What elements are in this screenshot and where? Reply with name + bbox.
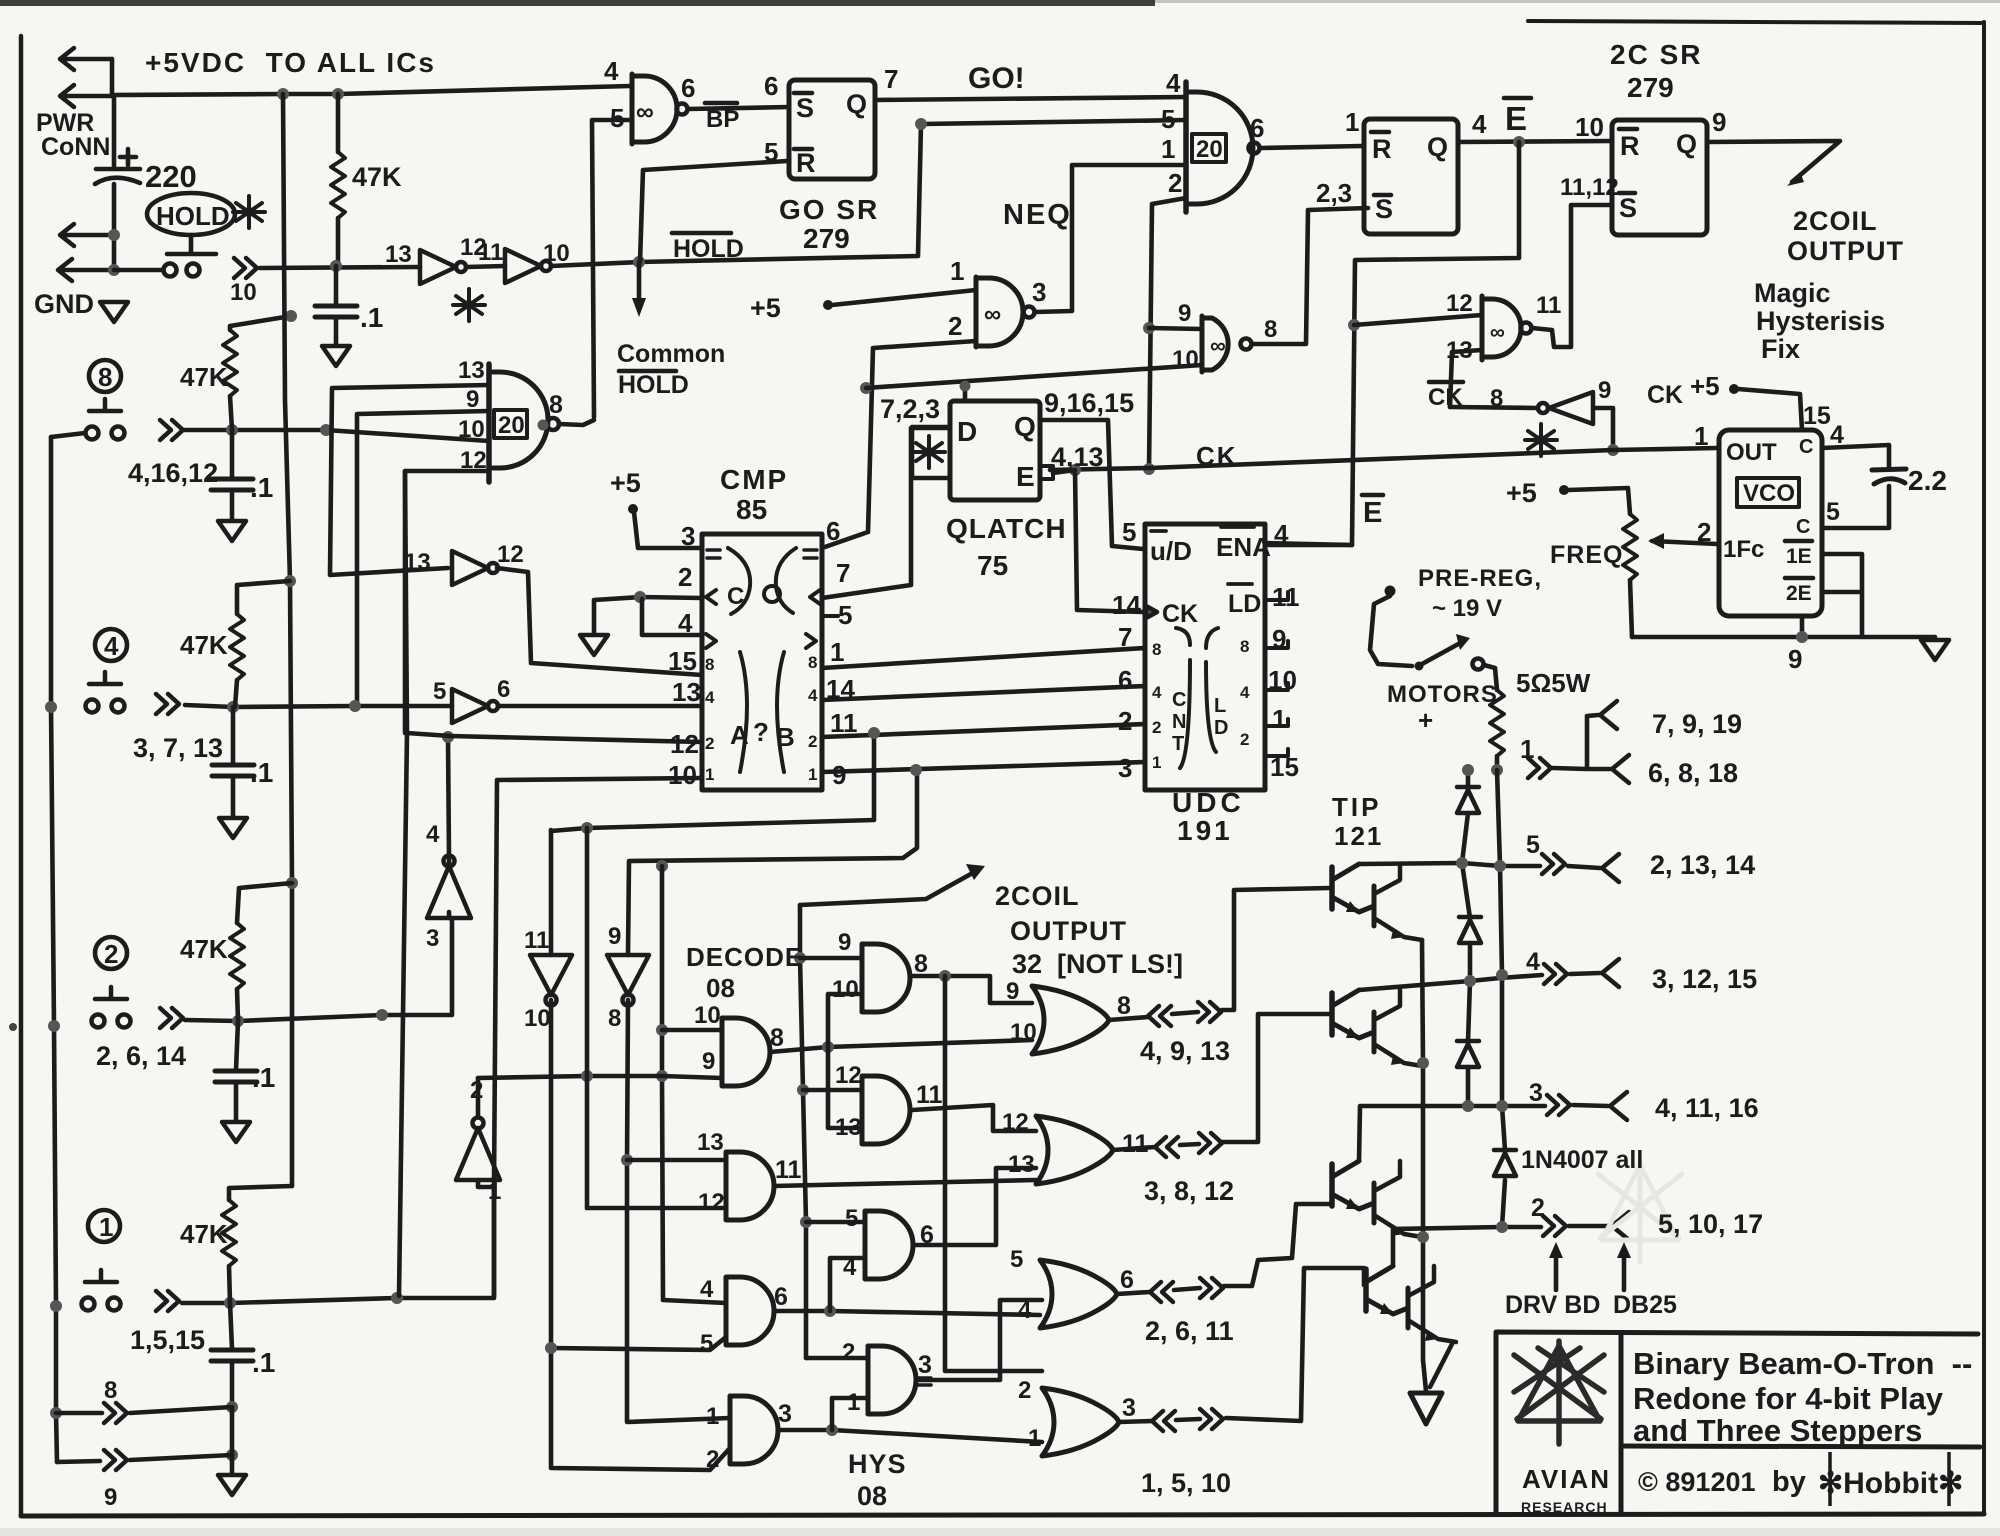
svg-text:9,16,15: 9,16,15 bbox=[1044, 388, 1134, 418]
svg-text:08: 08 bbox=[706, 973, 735, 1003]
titleblock divider vertical bbox=[1619, 1334, 1624, 1514]
svg-text:5: 5 bbox=[838, 600, 852, 630]
svg-text:2: 2 bbox=[842, 1339, 855, 1366]
wire u5 out to S ff1 bbox=[1252, 208, 1368, 344]
wire q8 emitter to gnd bbox=[1430, 1344, 1452, 1387]
wire u4 out bbox=[1260, 146, 1362, 148]
svg-text:3, 12, 15: 3, 12, 15 bbox=[1652, 964, 1757, 994]
svg-text:1: 1 bbox=[1152, 753, 1161, 772]
wire Ebar to ENA bbox=[1265, 142, 1519, 545]
svg-text:2COIL: 2COIL bbox=[995, 881, 1080, 911]
wire hold row bbox=[260, 267, 420, 268]
inverter U1b 11-10 bbox=[505, 249, 551, 283]
asterisk u7 bbox=[1525, 424, 1557, 456]
wire udc ena to ebar bbox=[1265, 543, 1352, 545]
svg-text:8: 8 bbox=[914, 950, 928, 978]
fork 6818 bbox=[1612, 755, 1629, 783]
wire decode top net A bbox=[551, 733, 874, 831]
node bus3 bbox=[868, 727, 880, 739]
svg-text:1: 1 bbox=[488, 1178, 501, 1205]
svg-text:DECODE: DECODE bbox=[686, 942, 803, 972]
wire x662 column bbox=[662, 866, 726, 1303]
diode D2 bbox=[1459, 917, 1481, 943]
svg-text:9: 9 bbox=[1272, 624, 1286, 654]
svg-text:8: 8 bbox=[1240, 637, 1249, 656]
svg-text:2, 13, 14: 2, 13, 14 bbox=[1650, 850, 1755, 880]
svg-text:3: 3 bbox=[1118, 753, 1132, 783]
svg-text:13: 13 bbox=[385, 241, 412, 268]
wire dg1 out bbox=[770, 1040, 1032, 1052]
svg-text:9: 9 bbox=[466, 386, 479, 413]
svg-text:2: 2 bbox=[1168, 168, 1182, 198]
svg-text:CK: CK bbox=[1428, 384, 1463, 411]
wire u6 pin13 bbox=[1450, 350, 1482, 407]
node emitter joins bbox=[1417, 1057, 1429, 1069]
svg-text:279: 279 bbox=[803, 223, 850, 254]
wire hold net to nand bbox=[551, 120, 1186, 266]
svg-text:15: 15 bbox=[1270, 752, 1299, 782]
svg-text:4: 4 bbox=[1152, 683, 1162, 702]
inverter U9a 13-12 bbox=[452, 551, 498, 585]
node holdnet bbox=[633, 256, 645, 268]
switch SW1 bbox=[82, 1270, 121, 1311]
overline CKbar bbox=[1429, 380, 1463, 385]
svg-text:HOLD: HOLD bbox=[673, 235, 744, 263]
svg-text:OUT: OUT bbox=[1726, 439, 1777, 466]
svg-text:4: 4 bbox=[700, 1276, 714, 1303]
svg-text:.1: .1 bbox=[360, 302, 383, 333]
node 2coil taps bbox=[794, 952, 806, 964]
svg-text:Common: Common bbox=[617, 340, 725, 368]
svg-text:R: R bbox=[1372, 134, 1392, 164]
node Ebar bbox=[1513, 136, 1525, 148]
svg-text:5: 5 bbox=[1161, 104, 1175, 134]
svg-text:1,5,15: 1,5,15 bbox=[130, 1325, 205, 1355]
wire q1 collector rail row5 bbox=[1359, 863, 1540, 866]
wire x945 column to or4 bbox=[945, 976, 1042, 1371]
wire row8 to nand2 pin10 bbox=[185, 430, 489, 441]
svg-text:BP: BP bbox=[706, 106, 739, 133]
wire dg1 pin10 bbox=[662, 1028, 722, 1033]
svg-text:T: T bbox=[1172, 733, 1184, 755]
or OR2 bbox=[1036, 1116, 1113, 1184]
titleblock divider horizontal bbox=[1621, 1446, 1980, 1447]
svg-text:GND: GND bbox=[34, 289, 94, 319]
svg-text:47K: 47K bbox=[180, 630, 228, 660]
overline R S ff2 bbox=[1619, 129, 1637, 193]
wire qlatch D stub bbox=[963, 386, 968, 401]
wire neq pin2 / cmp pin6 bbox=[822, 341, 976, 548]
hobbit daggers bbox=[1830, 1452, 1949, 1506]
ground vco bbox=[1921, 640, 1949, 660]
pwr conn arrows bbox=[60, 48, 112, 70]
svg-text:∞: ∞ bbox=[636, 98, 654, 126]
wire qlatch Q to UDC ud bbox=[1040, 420, 1143, 549]
transistor Q3Q4 darlington bbox=[1332, 990, 1422, 1066]
ground c4 bbox=[219, 818, 247, 838]
svg-text:© 891201: © 891201 bbox=[1638, 1467, 1756, 1497]
svg-text:7: 7 bbox=[884, 64, 898, 94]
svg-text:5: 5 bbox=[764, 137, 778, 167]
svg-text:7: 7 bbox=[1118, 622, 1132, 652]
svg-text:9: 9 bbox=[702, 1048, 715, 1075]
wire u1a-u1b bbox=[466, 266, 505, 267]
svg-text:HOLD: HOLD bbox=[156, 201, 230, 231]
svg-text:C: C bbox=[1796, 516, 1810, 538]
svg-text:8: 8 bbox=[1117, 992, 1131, 1020]
svg-text:5: 5 bbox=[1010, 1246, 1023, 1273]
svg-text:1: 1 bbox=[950, 256, 964, 286]
wire +5 neq stub bbox=[823, 300, 833, 310]
svg-text:✻Hobbit✻: ✻Hobbit✻ bbox=[1818, 1467, 1963, 1500]
svg-text:9: 9 bbox=[838, 929, 851, 956]
svg-text:2: 2 bbox=[705, 734, 714, 753]
svg-text:HOLD: HOLD bbox=[618, 371, 689, 399]
wire cmp-udc bus4 bbox=[822, 762, 1145, 772]
node ck-e bbox=[1069, 464, 1081, 476]
wire row1 bbox=[182, 1180, 494, 1303]
node u11b taps bbox=[621, 1154, 633, 1166]
svg-text:Magic: Magic bbox=[1754, 278, 1831, 308]
svg-text:11: 11 bbox=[478, 239, 503, 266]
capacitor C4 .1 row4 bbox=[231, 707, 236, 764]
svg-text:13: 13 bbox=[404, 549, 431, 576]
wire cmp-udc bus1 bbox=[822, 648, 1145, 668]
svg-text:S: S bbox=[1375, 194, 1393, 224]
svg-text:2: 2 bbox=[706, 1446, 719, 1473]
svg-text:2: 2 bbox=[1118, 706, 1132, 736]
svg-text:10: 10 bbox=[1575, 112, 1604, 142]
svg-text:.1: .1 bbox=[250, 757, 273, 788]
svg-text:10: 10 bbox=[1010, 1019, 1037, 1046]
node diode col A bbox=[1456, 857, 1468, 869]
wire main bus v290 bbox=[283, 94, 292, 1186]
svg-text:+: + bbox=[1418, 705, 1433, 735]
svg-text:13: 13 bbox=[1446, 337, 1473, 364]
svg-text:1: 1 bbox=[1694, 421, 1708, 451]
svg-text:4: 4 bbox=[1166, 68, 1181, 98]
switch SW2 bbox=[92, 987, 131, 1028]
connector row1 out bbox=[1528, 758, 1551, 778]
node diode col B bbox=[1494, 860, 1506, 872]
capacitor C2 .1 bbox=[334, 266, 339, 305]
svg-text:A: A bbox=[730, 720, 749, 750]
counter UDC191 box bbox=[1145, 524, 1265, 790]
node x662 bbox=[656, 1024, 668, 1036]
or OR4 bbox=[1042, 1388, 1119, 1456]
svg-text:3: 3 bbox=[681, 521, 695, 551]
wire u11a out column bbox=[551, 1000, 730, 1470]
wire dg4 out bbox=[778, 1430, 1042, 1442]
wire q5 collector rail row3 bbox=[1359, 1106, 1545, 1161]
node dg4 out bbox=[826, 1424, 838, 1436]
svg-text:?: ? bbox=[753, 717, 769, 747]
vco label box bbox=[1737, 478, 1799, 507]
svg-text:6: 6 bbox=[497, 676, 510, 703]
or OR1 output32 bbox=[1032, 986, 1109, 1054]
wire vco bottom common bbox=[1632, 554, 1935, 637]
connector chevron hold bbox=[234, 258, 257, 278]
svg-text:4,16,12: 4,16,12 bbox=[128, 458, 218, 488]
svg-text:HYS: HYS bbox=[848, 1449, 907, 1479]
wire hys3 pin5 bbox=[806, 1220, 865, 1225]
svg-text:4: 4 bbox=[705, 688, 715, 707]
svg-text:UDC: UDC bbox=[1172, 787, 1245, 818]
svg-text:5: 5 bbox=[1122, 517, 1136, 547]
capacitor C7 2.2 bbox=[1872, 469, 1906, 484]
svg-text:1: 1 bbox=[808, 765, 817, 784]
svg-text:R: R bbox=[796, 148, 816, 178]
resistor R5 47K row1 bbox=[229, 1186, 292, 1200]
wire u2 pin5 to nand2 out bbox=[592, 120, 632, 417]
wire dg2 pin12 bbox=[587, 1206, 726, 1211]
and DG1 decode bbox=[722, 1018, 770, 1086]
svg-text:1: 1 bbox=[830, 637, 844, 667]
overline E small bbox=[1362, 493, 1383, 498]
svg-text:1: 1 bbox=[1520, 734, 1534, 764]
wire vco pin4 cap bbox=[1822, 445, 1889, 467]
transistor Q5Q6 darlington bbox=[1332, 1161, 1422, 1237]
svg-text:9: 9 bbox=[1788, 644, 1802, 674]
svg-text:B: B bbox=[776, 722, 795, 752]
svg-text:13: 13 bbox=[835, 1114, 862, 1141]
comparator CMP85 box bbox=[702, 534, 822, 790]
wire diode column A bbox=[1462, 770, 1470, 1106]
svg-text:4: 4 bbox=[843, 1254, 857, 1281]
svg-text:1: 1 bbox=[705, 765, 714, 784]
svg-text:9: 9 bbox=[1006, 978, 1019, 1005]
svg-text:5, 10, 17: 5, 10, 17 bbox=[1658, 1209, 1763, 1239]
svg-text:D: D bbox=[1214, 717, 1228, 739]
svg-text:2: 2 bbox=[1697, 517, 1711, 547]
connector row8 out bbox=[56, 1411, 102, 1416]
svg-text:8: 8 bbox=[104, 1377, 117, 1404]
svg-text:5: 5 bbox=[433, 678, 446, 705]
border right bbox=[1982, 22, 1986, 1514]
wire dg2 out bbox=[774, 1180, 1036, 1186]
node cmp2 bbox=[634, 591, 646, 603]
flipflop FF2 bbox=[1612, 120, 1707, 235]
udc ck pin arrow bbox=[1146, 606, 1157, 618]
svg-text:1E: 1E bbox=[1786, 545, 1812, 568]
svg-text:4: 4 bbox=[1472, 109, 1487, 139]
svg-text:8: 8 bbox=[1264, 316, 1277, 343]
wire hys4 pin2 bbox=[806, 1356, 868, 1361]
capacitor C1 220 bbox=[95, 96, 140, 270]
logo avian star bbox=[1514, 1341, 1604, 1444]
wire qlatch E to ck bbox=[1053, 470, 1075, 473]
wire CK line bbox=[1050, 448, 1717, 470]
udc overlines bbox=[1151, 527, 1254, 584]
svg-text:+5: +5 bbox=[1690, 371, 1720, 401]
overline S R in gosr bbox=[794, 93, 812, 149]
udc inner brackets bbox=[1176, 628, 1218, 768]
vco +5 stub bbox=[1729, 384, 1739, 394]
svg-text:4: 4 bbox=[1830, 421, 1844, 449]
wire or3 out row bbox=[1117, 1204, 1330, 1294]
svg-text:47K: 47K bbox=[180, 934, 228, 964]
ground c6 bbox=[218, 1475, 246, 1495]
and DG2 decode bbox=[726, 1152, 774, 1220]
svg-text:1, 5, 10: 1, 5, 10 bbox=[1141, 1468, 1231, 1498]
node dg3 out bbox=[824, 1305, 836, 1317]
resistor R4 47K row2 bbox=[237, 883, 292, 923]
svg-text:1: 1 bbox=[1028, 1425, 1041, 1452]
svg-text:.1: .1 bbox=[252, 1347, 275, 1378]
svg-text:47K: 47K bbox=[352, 162, 402, 192]
wire u5 pin9 stub bbox=[1149, 328, 1202, 329]
wire u8 pin9 nest bbox=[357, 411, 489, 705]
svg-text:85: 85 bbox=[736, 494, 767, 525]
wire inv column 551 bbox=[549, 830, 554, 955]
inverter U1a 13-12 bbox=[420, 250, 466, 284]
svg-text:Q: Q bbox=[1427, 132, 1448, 162]
svg-text:32 [NOT LS!]: 32 [NOT LS!] bbox=[1012, 949, 1183, 979]
resistor R2 47K row8 bbox=[230, 316, 291, 330]
wire udc ck net bbox=[1075, 470, 1143, 612]
svg-text:1: 1 bbox=[1161, 134, 1175, 164]
svg-text:2: 2 bbox=[1152, 718, 1161, 737]
svg-text:1: 1 bbox=[1272, 704, 1286, 734]
svg-text:4, 11, 16: 4, 11, 16 bbox=[1655, 1093, 1759, 1123]
svg-text:PRE-REG,: PRE-REG, bbox=[1418, 565, 1542, 592]
svg-text:4: 4 bbox=[1274, 519, 1289, 549]
nand U6 bbox=[1482, 296, 1521, 360]
wire dg2 pin13 bbox=[627, 1158, 726, 1163]
svg-text:6: 6 bbox=[1118, 665, 1132, 695]
scan smudge top edge bbox=[0, 0, 1155, 6]
wire hys2 pin12 bbox=[803, 1088, 862, 1093]
wire ff1 Q to ff2 bbox=[1458, 141, 1612, 142]
node bus taps bbox=[45, 701, 57, 713]
fork 7919 bbox=[1600, 701, 1617, 729]
svg-text:75: 75 bbox=[977, 550, 1008, 581]
node rail junctions bbox=[277, 88, 289, 100]
wire or2 out row bbox=[1113, 1014, 1330, 1150]
node row4 bbox=[227, 701, 239, 713]
wire cmp pin2 gnd bbox=[594, 597, 702, 633]
svg-text:191: 191 bbox=[1177, 815, 1233, 846]
svg-text:S: S bbox=[796, 93, 814, 123]
overline BP bbox=[705, 101, 737, 106]
transistor Q7Q8 darlington bbox=[1366, 1266, 1456, 1342]
svg-text:DB25: DB25 bbox=[1613, 1291, 1677, 1319]
svg-text:GO SR: GO SR bbox=[779, 194, 879, 225]
svg-text:6: 6 bbox=[774, 1283, 788, 1311]
node r1 bottom bbox=[330, 260, 342, 272]
wire hys4 pin1 tap bbox=[832, 1398, 868, 1430]
ground c3 bbox=[218, 521, 246, 541]
svg-text:QLATCH: QLATCH bbox=[946, 513, 1067, 544]
svg-text:4: 4 bbox=[1240, 683, 1250, 702]
wire or4 out row bbox=[1119, 1268, 1364, 1422]
svg-text:C: C bbox=[727, 583, 744, 610]
svg-text:3: 3 bbox=[1529, 1079, 1543, 1107]
nand U4 20 bbox=[1183, 82, 1189, 212]
svg-text:11: 11 bbox=[830, 708, 858, 738]
svg-text:∞: ∞ bbox=[984, 301, 1001, 328]
svg-text:5: 5 bbox=[1826, 498, 1840, 526]
svg-text:4: 4 bbox=[678, 608, 693, 638]
diode D1 bbox=[1457, 787, 1479, 813]
svg-text:9: 9 bbox=[608, 923, 621, 950]
svg-text:FREQ: FREQ bbox=[1550, 541, 1623, 569]
svg-text:13: 13 bbox=[458, 357, 485, 384]
inverter U11a 11-10 down bbox=[530, 955, 572, 1006]
svg-text:47K: 47K bbox=[180, 362, 228, 392]
diode D3 bbox=[1457, 1041, 1479, 1067]
wire hys3 out net bbox=[915, 1168, 1036, 1245]
node 5ohm out bbox=[1491, 764, 1503, 776]
svg-text:NEQ: NEQ bbox=[1003, 199, 1072, 231]
inverter U7 CK (left) bbox=[1549, 392, 1593, 424]
wire cmp pin4 bbox=[642, 599, 702, 635]
svg-text:3: 3 bbox=[918, 1351, 932, 1379]
inverter U11b 9-8 down bbox=[607, 955, 649, 1006]
svg-text:12: 12 bbox=[835, 1062, 862, 1089]
wire hys1 out net bbox=[912, 976, 1032, 1003]
svg-text:RESEARCH: RESEARCH bbox=[1521, 1499, 1608, 1515]
node u10a cmp12 bbox=[442, 731, 454, 743]
svg-text:10: 10 bbox=[524, 1005, 551, 1032]
switch motors bbox=[1415, 662, 1424, 671]
resistor R6 5ohm bbox=[1490, 690, 1504, 756]
node hys1 out bbox=[939, 970, 951, 982]
connector row9 out bbox=[104, 1450, 127, 1470]
border bottom bbox=[21, 1514, 1984, 1516]
svg-text:8: 8 bbox=[1152, 640, 1161, 659]
svg-text:3: 3 bbox=[1122, 1394, 1136, 1422]
svg-text:8: 8 bbox=[770, 1024, 784, 1052]
svg-text:20: 20 bbox=[498, 412, 525, 439]
svg-text:11: 11 bbox=[775, 1156, 802, 1184]
svg-text:u/D: u/D bbox=[1150, 536, 1192, 566]
svg-text:TIP: TIP bbox=[1332, 792, 1381, 822]
svg-text:15: 15 bbox=[668, 646, 697, 676]
node dg1 out bbox=[822, 1041, 834, 1053]
svg-text:ENA: ENA bbox=[1216, 532, 1271, 562]
svg-text:13: 13 bbox=[1008, 1151, 1035, 1178]
svg-text:Hysterisis: Hysterisis bbox=[1756, 306, 1885, 336]
circled 4 bbox=[95, 629, 127, 661]
circled 1 bbox=[88, 1210, 120, 1242]
wire emitter chain bbox=[1422, 940, 1426, 1391]
wire u8 pin13 nest bbox=[330, 385, 489, 575]
svg-text:3, 7, 13: 3, 7, 13 bbox=[133, 733, 223, 763]
svg-text:2: 2 bbox=[678, 562, 692, 592]
HOLD oval bbox=[147, 193, 235, 235]
wire +5VDC rail bbox=[112, 86, 630, 95]
wire decode top net B bbox=[628, 770, 917, 955]
svg-text:~ 19 V: ~ 19 V bbox=[1432, 595, 1502, 622]
svg-text:2, 6, 14: 2, 6, 14 bbox=[96, 1041, 186, 1071]
svg-text:+5: +5 bbox=[750, 293, 781, 323]
svg-text:6: 6 bbox=[1250, 113, 1264, 143]
wire left bus bbox=[51, 437, 57, 1462]
wire u2 out bbox=[688, 107, 789, 109]
svg-text:14: 14 bbox=[826, 674, 855, 704]
svg-text:4: 4 bbox=[1018, 1297, 1032, 1324]
svg-text:4: 4 bbox=[808, 686, 818, 705]
svg-text:6: 6 bbox=[920, 1221, 934, 1249]
and DG3 decode bbox=[726, 1277, 774, 1345]
svg-text:7, 9, 19: 7, 9, 19 bbox=[1652, 709, 1742, 739]
svg-text:LD: LD bbox=[1228, 590, 1261, 618]
svg-text:7,2,3: 7,2,3 bbox=[880, 394, 940, 424]
ground emitters solid bbox=[1410, 1393, 1442, 1424]
wire hys1 pin9 bbox=[800, 956, 862, 961]
svg-text:8: 8 bbox=[608, 1005, 621, 1032]
